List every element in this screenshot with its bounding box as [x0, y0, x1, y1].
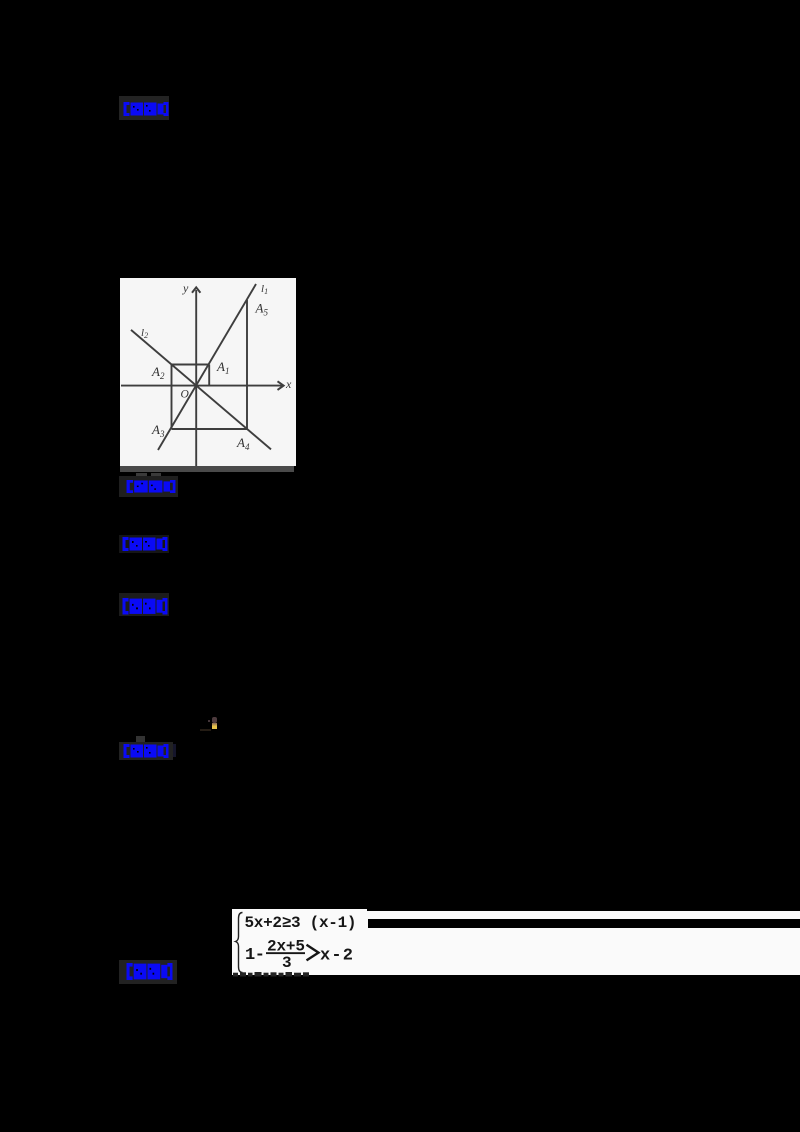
svg-text:y: y — [182, 281, 189, 295]
svg-text:x-2: x-2 — [320, 947, 353, 966]
y axis arrowhead — [192, 287, 200, 292]
svg-text:x: x — [285, 377, 292, 391]
x axis — [121, 385, 283, 387]
label highlight box 1 — [119, 96, 169, 120]
faint glyph after label 5 — [170, 744, 176, 757]
fraction bar — [266, 952, 305, 954]
> x - 2 — [307, 945, 319, 961]
line l2 — [131, 330, 271, 450]
line l1 — [158, 284, 256, 450]
formula content — [232, 909, 367, 975]
figure bottom shadow strip — [120, 466, 294, 472]
label L4 blue text — [122, 598, 168, 615]
black fill-in bar — [368, 919, 800, 928]
y axis — [195, 290, 197, 466]
small gray nub above label 5 — [136, 736, 145, 742]
label L6 blue text — [126, 963, 173, 980]
label L5 blue text — [123, 744, 169, 758]
big square bottom edge — [172, 428, 248, 430]
label L2 blue text — [126, 480, 176, 493]
formula white panel — [232, 909, 367, 975]
label highlight box 2 — [119, 476, 178, 497]
clipped glyph tops row — [232, 972, 312, 977]
tall vertical A5-A4 — [246, 300, 248, 429]
svg-text:1-: 1- — [245, 946, 265, 965]
label L3 blue text — [122, 537, 168, 551]
label L1 blue text — [123, 102, 169, 116]
svg-text:O: O — [181, 389, 190, 401]
faint marks above yellow icon — [212, 717, 217, 723]
small gray nubs above label 2 — [136, 473, 147, 477]
small yellow icon — [212, 723, 218, 729]
small rect right edge — [208, 365, 210, 386]
label highlight box 5 — [119, 742, 173, 760]
big brace — [236, 913, 243, 973]
label highlight box 4 — [119, 593, 169, 616]
big square left edge — [171, 365, 173, 430]
full width white line strip — [367, 911, 800, 975]
svg-text:5x+2≥3 (x-1): 5x+2≥3 (x-1) — [245, 914, 357, 932]
svg-text:3: 3 — [282, 954, 292, 972]
math figure white panel — [120, 278, 296, 472]
label highlight box 6 — [119, 960, 177, 984]
label highlight box 3 — [119, 535, 169, 553]
x axis arrowhead — [278, 381, 284, 390]
small rect top edge — [172, 364, 210, 366]
